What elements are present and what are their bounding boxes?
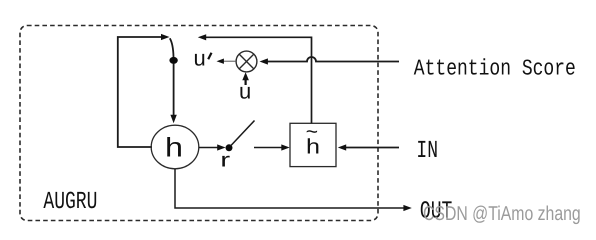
svg-text:u: u [194, 46, 206, 71]
svg-text:IN: IN [416, 138, 438, 165]
svg-text:~: ~ [306, 120, 318, 143]
svg-text:Attention Score: Attention Score [414, 57, 576, 82]
svg-text:h: h [165, 133, 183, 163]
svg-text:AUGRU: AUGRU [43, 189, 97, 216]
svg-text:CSDN @TiAmo zhang: CSDN @TiAmo zhang [423, 203, 581, 225]
svg-text:u: u [239, 79, 251, 104]
svg-text:r: r [220, 150, 230, 172]
